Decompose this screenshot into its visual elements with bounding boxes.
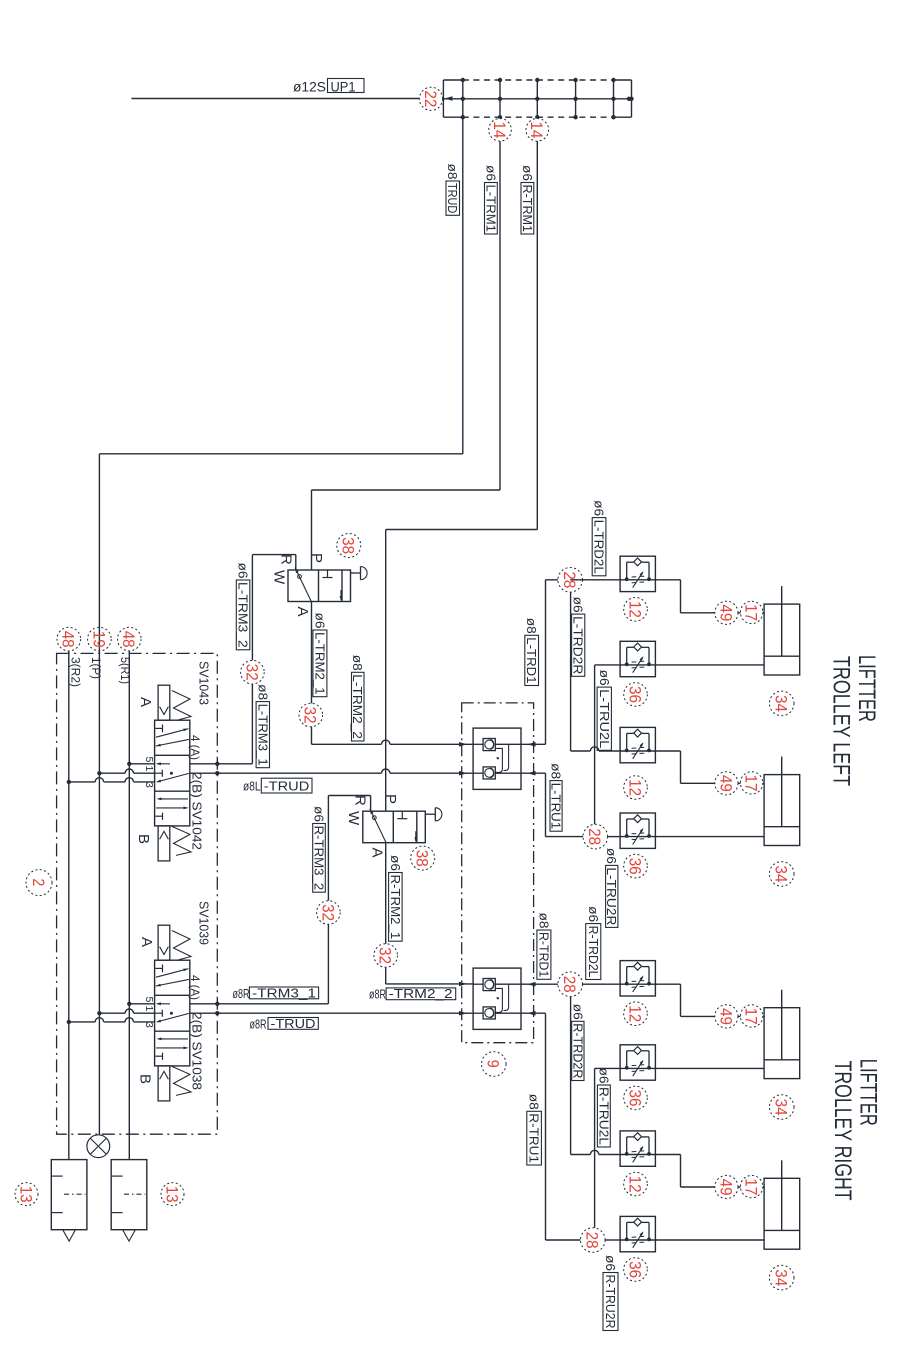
svg-text:ø6: ø6: [483, 165, 497, 181]
solenoid valve unit SV1039 / SV1038 (dual 3-port): [155, 925, 191, 1101]
label ø12SUP1: [293, 79, 364, 95]
flow control valve row D: [620, 813, 656, 848]
balloon 32 on L-TRM3 line: [241, 660, 265, 684]
svg-text:3(R2): 3(R2): [68, 657, 80, 687]
wire ø6L-TRD2L to flow control A: [570, 579, 620, 581]
label B solenoid SV1038: [137, 1074, 154, 1084]
svg-text:14: 14: [490, 121, 509, 138]
flow control valve row C: [620, 727, 656, 762]
label ø8TRUD (on line x463): [445, 164, 459, 216]
svg-text:12: 12: [625, 779, 644, 796]
balloon 49 cylinder 2 port: [715, 772, 738, 795]
wire port 4(A) valve unit 2 ø8R-TRM3_1 to hand valve 2 R: [190, 796, 371, 1007]
label 4 (A) valve unit 1: [188, 735, 202, 760]
svg-text:28: 28: [583, 1232, 602, 1249]
svg-text:-TRUD: -TRUD: [271, 1017, 316, 1031]
arrow ø8R-TRUD into junction block 2: [459, 1011, 467, 1016]
wire ø8R-TRU1 from block 2 down to balloon 28: [521, 1013, 593, 1240]
balloon 28 right TRU split: [581, 1228, 606, 1253]
svg-text:L-TRM2_1: L-TRM2_1: [312, 632, 326, 695]
label 2(B) SV1038: [189, 1012, 204, 1090]
label ø8L-TRM3_1 (below balloon32): [255, 684, 269, 768]
label ø6L-TRM2_1 (A line x311): [312, 613, 327, 697]
label ø6L-TRD2R (line x570): [571, 597, 585, 677]
svg-text:5(R1): 5(R1): [118, 657, 130, 684]
arrow ø8R-TRD1 out of block 2: [528, 982, 536, 987]
svg-text:P: P: [382, 794, 399, 804]
balloon 17 cylinder 3 port: [740, 1005, 762, 1027]
wire flow control row C to cylinder 2 rod-side port: [655, 751, 764, 783]
svg-text:L-TRU1: L-TRU1: [549, 783, 563, 830]
svg-text:W: W: [271, 570, 288, 585]
wire exhaust R1 line x129.3: [128, 651, 130, 1160]
svg-text:L-TRD2L: L-TRD2L: [592, 520, 606, 574]
label ø6R-TRM2_1 (A line x386): [388, 855, 402, 941]
wire flow control row F to cylinder 3 cap-side port: [655, 1067, 764, 1069]
svg-text:B: B: [135, 834, 152, 844]
title TROLLEY LEFT: [828, 656, 855, 786]
label ø8R-TRM3_1: [233, 986, 319, 1001]
balloon 34 cylinder 1: [769, 691, 794, 716]
label ø6R-TRD2L (wire y984): [586, 906, 601, 979]
svg-text:5: 5: [143, 757, 155, 763]
label port 3 valve unit 1: [143, 782, 155, 788]
wire ø8L-TRU1 from block 1 down to balloon 28: [521, 773, 595, 836]
wire ø8TRUD from manifold (1P supply): [99, 117, 462, 1135]
svg-text:ø8: ø8: [549, 763, 563, 779]
label ø6R-TRD2R (line x570): [570, 1004, 584, 1081]
balloon 32 on R-TRM2 line: [374, 944, 398, 968]
wire ø8L-TRD1 from block 1 up to balloon 28: [521, 580, 570, 745]
svg-text:5: 5: [143, 997, 155, 1003]
wire hand valve 1 A port ø6L-TRM2_1 down to junction block 1: [312, 602, 474, 745]
svg-text:4 (A): 4 (A): [188, 975, 202, 1000]
svg-text:ø6: ø6: [592, 500, 606, 516]
balloon 22: [419, 87, 442, 110]
svg-text:ø6: ø6: [596, 1068, 610, 1084]
wire flow control row H to cylinder 4 cap-side port: [655, 1239, 764, 1241]
wire port 1 valve unit 1 (from P line): [97, 769, 154, 775]
svg-text:48: 48: [119, 631, 138, 648]
svg-text:A: A: [294, 607, 311, 617]
balloon 28 left TRD split: [558, 568, 583, 593]
label SV1043: [196, 661, 211, 705]
arrow ø8R-TRM2_2 into junction block 2: [459, 982, 467, 987]
label 2(B) SV1042: [189, 772, 204, 850]
wire port 5 valve unit 1: [127, 762, 155, 766]
svg-text:R: R: [278, 554, 295, 565]
label A hand valve 2: [369, 848, 386, 858]
svg-text:R: R: [352, 795, 369, 806]
svg-text:ø12S: ø12S: [293, 80, 326, 95]
svg-text:R-TRM2_1: R-TRM2_1: [388, 875, 402, 940]
svg-text:32: 32: [376, 947, 395, 964]
svg-text:14: 14: [527, 121, 546, 138]
wire port 5 valve unit 2: [127, 1002, 155, 1006]
balloon 36 flow control row B: [624, 683, 648, 707]
balloon 49 cylinder 4 port: [715, 1175, 738, 1198]
flow control valve row F: [620, 1045, 656, 1080]
balloon 48 (port 3 R2): [57, 627, 81, 651]
svg-text:A: A: [137, 697, 154, 707]
label port 5 valve unit 1: [143, 757, 155, 763]
svg-text:TROLLEY LEFT: TROLLEY LEFT: [828, 656, 855, 786]
svg-text:12: 12: [625, 1176, 644, 1193]
label R hand valve 1: [278, 554, 295, 565]
svg-text:ø6: ø6: [586, 906, 600, 922]
label port 3 valve unit 2: [143, 1022, 155, 1028]
svg-text:L-TRD2R: L-TRD2R: [571, 616, 585, 674]
muffler 2 (exhaust R1): [111, 1160, 147, 1242]
balloon 9 junction blocks: [482, 1052, 507, 1077]
svg-text:ø6: ø6: [571, 597, 585, 613]
svg-text:ø8R: ø8R: [250, 1017, 267, 1031]
label SV1039: [196, 901, 211, 945]
wire ø6R-TRU2L up to flow control F: [595, 1068, 621, 1227]
plug circle-X on P line: [87, 1135, 110, 1158]
title LIFTTER (right): [855, 1059, 882, 1126]
balloon 2 valve island: [26, 870, 52, 896]
junction block 1 (left trolley quick couplings): [473, 728, 521, 789]
balloon 32 on L-TRM2 line: [299, 703, 323, 727]
label 1(P): [89, 657, 101, 679]
wire ø6L-TRD2R down to flow control C: [571, 592, 621, 751]
wire ø6R-TRM1 from manifold to hand valve 2 P: [386, 117, 538, 811]
balloon 12 flow control row G: [624, 1172, 648, 1196]
label ø6L-TRU2R (wire y836): [604, 848, 618, 928]
svg-text:34: 34: [772, 1269, 791, 1286]
svg-text:49: 49: [716, 1179, 735, 1196]
balloon 36 flow control row D: [624, 854, 648, 878]
svg-text:ø6: ø6: [312, 806, 326, 822]
wire hand valve 2 A port ø6R-TRM2_1 to junction block 2: [386, 843, 473, 984]
svg-text:R-TRD2L: R-TRD2L: [586, 926, 600, 978]
hand valve 1 (3/2 manual valve, L-TRM): [288, 567, 367, 602]
svg-text:R-TRD1: R-TRD1: [536, 932, 550, 977]
svg-text:49: 49: [716, 1008, 735, 1025]
svg-text:R-TRU2R: R-TRU2R: [603, 1275, 617, 1329]
wire supply line ø12SUP1: [132, 98, 445, 100]
balloon 4 on ø6L-TRM1: [489, 119, 512, 142]
label ø8R-TRUD: [250, 1017, 319, 1032]
svg-text:ø6: ø6: [604, 848, 618, 864]
svg-text:12: 12: [625, 601, 644, 618]
title LIFTTER (left): [853, 655, 880, 722]
label ø8L-TRD1 (line x545): [524, 618, 538, 686]
balloon 38 hand valve 1: [337, 534, 361, 558]
svg-text:13: 13: [162, 1186, 181, 1203]
svg-text:22: 22: [421, 90, 440, 107]
balloon 34 cylinder 2: [769, 862, 794, 887]
svg-text:L-TRU2R: L-TRU2R: [604, 867, 618, 925]
wire flow control row A to cylinder 1 rod-side port: [655, 580, 764, 613]
svg-text:ø8R: ø8R: [233, 987, 250, 1001]
svg-text:ø8R: ø8R: [369, 988, 386, 1002]
svg-text:R-TRM1: R-TRM1: [520, 185, 534, 233]
wire exhaust R2 line x68.8: [68, 651, 70, 1160]
svg-text:28: 28: [585, 828, 604, 845]
wire flow control row B to cylinder 1 cap-side port: [655, 664, 764, 666]
svg-text:49: 49: [716, 604, 735, 621]
svg-text:9: 9: [484, 1060, 503, 1068]
wire port 1 valve unit 2: [97, 1009, 154, 1015]
svg-text:34: 34: [772, 866, 791, 883]
balloon 49 cylinder 1 port: [715, 601, 738, 624]
svg-text:4 (A): 4 (A): [188, 735, 202, 760]
svg-text:34: 34: [772, 695, 791, 712]
svg-text:17: 17: [742, 775, 761, 792]
svg-text:TROLLEY RIGHT: TROLLEY RIGHT: [829, 1061, 856, 1201]
svg-text:36: 36: [625, 1261, 644, 1278]
wire flow control row E to cylinder 3 rod-side port: [655, 984, 764, 1016]
flow control valve row G: [620, 1131, 656, 1166]
svg-text:1: 1: [143, 1006, 155, 1012]
cylinder 2 (lifter trolley): [764, 757, 800, 846]
svg-text:B: B: [137, 1074, 154, 1084]
flow control valve row B: [620, 641, 656, 676]
svg-text:ø8: ø8: [527, 1094, 541, 1110]
svg-text:-TRM2_2: -TRM2_2: [389, 987, 453, 1001]
svg-text:12: 12: [625, 1005, 644, 1022]
label port 1 valve unit 2: [143, 1006, 155, 1012]
svg-text:UP1: UP1: [331, 80, 356, 95]
label ø6R-TRM1 (on line x537): [520, 165, 534, 234]
junction blocks dash-dot enclosure: [462, 703, 534, 1043]
wire port 3 valve unit 2: [67, 1018, 155, 1024]
arrow ø8L-TRD1 out of block 1: [528, 742, 536, 747]
flow control valve row E: [620, 961, 656, 996]
arrow ø8L-TRU1 out of block 1: [528, 771, 536, 776]
svg-text:R-TRU2L: R-TRU2L: [596, 1087, 610, 1145]
wire port 2(B) valve unit 2 ø8R-TRUD to junction block 2: [190, 1011, 473, 1015]
svg-text:ø6: ø6: [597, 670, 611, 686]
balloon 28 left TRU split: [583, 824, 608, 849]
svg-text:ø6: ø6: [236, 563, 250, 579]
svg-text:36: 36: [625, 858, 644, 875]
wire ø6L-TRU2R to flow control D: [608, 836, 621, 838]
svg-text:36: 36: [625, 686, 644, 703]
balloon 32 on R-TRM3 line: [317, 901, 341, 925]
balloon 34 cylinder 3: [769, 1095, 794, 1120]
svg-text:TRUD: TRUD: [445, 183, 459, 213]
svg-text:ø8: ø8: [536, 913, 550, 929]
svg-text:SV1039: SV1039: [196, 901, 211, 945]
label ø8R-TRU1 (line x545): [527, 1094, 542, 1165]
balloon 17 cylinder 4 port: [740, 1175, 762, 1197]
svg-text:L-TRM3_2: L-TRM3_2: [236, 582, 250, 648]
label ø8R-TRD1 (wire y984): [536, 913, 551, 980]
svg-text:38: 38: [413, 850, 432, 867]
svg-text:1: 1: [143, 766, 155, 772]
svg-text:32: 32: [318, 904, 337, 921]
label W hand valve 2: [345, 811, 362, 826]
wire port 2(B) valve unit 1 ø8L-TRUD to junction block 1: [190, 769, 473, 775]
label A solenoid SV1039: [138, 937, 155, 947]
svg-text:17: 17: [742, 1178, 761, 1195]
balloon 12 flow control row C: [624, 776, 648, 800]
svg-text:L-TRM1: L-TRM1: [483, 185, 497, 233]
valve island dashed enclosure: [57, 653, 218, 1134]
label A hand valve 1: [294, 607, 311, 617]
label R hand valve 2: [352, 795, 369, 806]
svg-text:2(B) SV1042: 2(B) SV1042: [189, 772, 204, 850]
arrow L-TRM2_2 into junction block 1: [459, 742, 467, 747]
balloon 28 right TRD split: [558, 972, 583, 997]
balloon 36 flow control row F: [624, 1086, 648, 1110]
svg-text:ø8L: ø8L: [243, 779, 261, 794]
svg-text:ø8: ø8: [350, 655, 364, 671]
svg-text:-TRUD: -TRUD: [264, 779, 310, 794]
svg-text:P: P: [308, 553, 325, 563]
svg-text:19: 19: [89, 631, 108, 648]
label W hand valve 1: [271, 570, 288, 585]
cylinder 3 (lifter trolley): [764, 990, 800, 1079]
svg-text:-TRM3_1: -TRM3_1: [252, 986, 316, 1000]
svg-text:LIFTTER: LIFTTER: [853, 655, 880, 722]
wire ø6L-TRM1 from manifold to hand valve 1 P: [312, 117, 501, 570]
balloon 36 flow control row H: [624, 1258, 648, 1282]
svg-text:1(P): 1(P): [89, 657, 101, 679]
label 3(R2): [68, 657, 80, 687]
solenoid valve unit SV1043 / SV1042 (dual 3-port): [155, 685, 191, 861]
arrow ø8R-TRU1 out of block 2: [528, 1011, 536, 1016]
title TROLLEY RIGHT: [829, 1061, 856, 1201]
svg-text:36: 36: [625, 1090, 644, 1107]
svg-text:A: A: [138, 937, 155, 947]
svg-text:L-TRU2L: L-TRU2L: [597, 689, 611, 748]
wire ø6R-TRU2R to flow control H: [605, 1239, 620, 1241]
svg-text:ø8: ø8: [524, 618, 538, 634]
label ø6L-TRU2L (line x594): [597, 670, 612, 751]
svg-text:ø6: ø6: [603, 1255, 617, 1271]
svg-text:13: 13: [16, 1186, 35, 1203]
label ø8R-TRM2_2: [369, 987, 456, 1002]
svg-text:A: A: [369, 848, 386, 858]
label B solenoid SV1042: [135, 834, 152, 844]
label ø8L-TRU1 (line x545): [549, 763, 563, 831]
svg-text:ø6: ø6: [520, 165, 534, 181]
wire port 3 valve unit 1: [67, 778, 155, 784]
balloon 4 on ø6R-TRM1: [526, 119, 549, 142]
wire flow control row D to cylinder 2 cap-side port: [655, 836, 764, 838]
cylinder 1 (lifter trolley): [764, 586, 800, 675]
wire ø6R-TRD2R down to flow control G: [571, 997, 621, 1155]
svg-text:32: 32: [242, 664, 261, 681]
svg-text:LIFTTER: LIFTTER: [855, 1059, 882, 1126]
balloon 49 cylinder 3 port: [715, 1005, 738, 1028]
cylinder 4 (lifter trolley): [764, 1160, 800, 1249]
svg-text:48: 48: [59, 631, 78, 648]
svg-text:3: 3: [143, 782, 155, 788]
hand valve 2 (3/2 manual valve, R-TRM): [363, 808, 442, 843]
wire ø8R-TRD1 from block 2 to balloon 28: [521, 983, 620, 985]
svg-text:L-TRD1: L-TRD1: [524, 637, 538, 683]
flow control valve row H: [620, 1216, 656, 1251]
svg-text:ø6: ø6: [388, 855, 402, 871]
label port 1 valve unit 1: [143, 766, 155, 772]
label ø6R-TRM3_2 (R line x328): [312, 806, 326, 892]
label port 5 valve unit 2: [143, 997, 155, 1003]
svg-text:38: 38: [339, 537, 358, 554]
svg-text:ø8: ø8: [255, 684, 269, 700]
svg-text:ø6: ø6: [312, 613, 326, 629]
junction block 2 (right trolley quick couplings): [473, 968, 521, 1029]
arrow supply inlet: [445, 96, 453, 101]
balloon 17 cylinder 2 port: [740, 772, 762, 794]
wire hand valve 1 R port to ø6L-TRM3_2: [252, 555, 295, 764]
balloon 48 (port 5 R1): [118, 627, 142, 651]
flow control valve row A: [620, 556, 656, 591]
svg-text:ø8: ø8: [445, 164, 459, 180]
wire ø6L-TRU2L up to flow control B: [595, 665, 621, 824]
svg-text:17: 17: [742, 604, 761, 621]
svg-text:W: W: [345, 811, 362, 826]
label ø8L-TRUD: [243, 778, 312, 793]
label P hand valve 1: [308, 553, 325, 563]
svg-text:3: 3: [143, 1022, 155, 1028]
label ø6L-TRD2L (wire y580): [592, 500, 606, 576]
label A solenoid SV1043: [137, 697, 154, 707]
balloon 17 cylinder 1 port: [740, 601, 762, 623]
label P hand valve 2: [382, 794, 399, 804]
svg-text:34: 34: [772, 1099, 791, 1116]
balloon 13 muffler 2: [161, 1183, 184, 1206]
balloon 12 flow control row E: [624, 1002, 648, 1026]
label ø8L-TRM2_2 (horizontal run): [350, 655, 364, 741]
svg-text:2: 2: [29, 878, 48, 886]
svg-text:28: 28: [560, 976, 579, 993]
svg-text:L-TRM3_1: L-TRM3_1: [255, 704, 269, 766]
label ø6L-TRM3_2 (R line x252): [236, 563, 250, 650]
svg-text:17: 17: [742, 1008, 761, 1025]
balloon 38 hand valve 2: [411, 846, 435, 870]
svg-text:R-TRD2R: R-TRD2R: [570, 1023, 584, 1078]
svg-text:32: 32: [301, 707, 320, 724]
balloon 19 (port 1 P): [88, 627, 112, 651]
label ø6R-TRU2R (wire y1240): [603, 1255, 618, 1331]
wire port 4(A) valve unit 1 to L-TRM3 line: [190, 762, 253, 766]
manifold air supply block: [443, 78, 633, 120]
wire flow control row G to cylinder 4 rod-side port: [655, 1155, 764, 1188]
balloon 12 flow control row A: [624, 598, 648, 622]
label 4 (A) valve unit 2: [188, 975, 202, 1000]
svg-text:ø6: ø6: [570, 1004, 584, 1020]
balloon 34 cylinder 4: [769, 1265, 794, 1290]
label ø6R-TRU2L (line x594): [596, 1068, 610, 1148]
svg-text:2(B) SV1038: 2(B) SV1038: [189, 1012, 204, 1090]
svg-text:R-TRM3_2: R-TRM3_2: [312, 826, 326, 891]
svg-text:SV1043: SV1043: [196, 661, 211, 705]
svg-text:L-TRM2_2: L-TRM2_2: [350, 674, 364, 739]
label ø6L-TRM1 (on line x500): [483, 165, 497, 234]
svg-text:R-TRU1: R-TRU1: [527, 1113, 541, 1163]
label 5(R1): [118, 657, 130, 684]
svg-text:49: 49: [716, 775, 735, 792]
balloon 13 muffler 1: [15, 1183, 38, 1206]
arrow ø8L-TRUD into junction block 1: [459, 771, 467, 776]
muffler 1 (exhaust R2): [51, 1160, 87, 1242]
